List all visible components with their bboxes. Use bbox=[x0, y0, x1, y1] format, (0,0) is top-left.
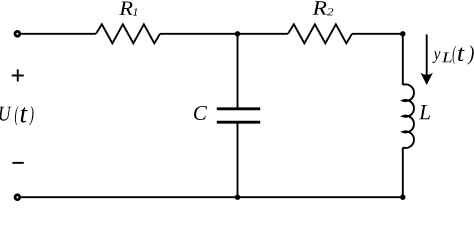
bottom right junction dot bbox=[400, 195, 405, 200]
node A junction dot bbox=[235, 31, 240, 36]
wire: R2 to node B bbox=[352, 33, 403, 35]
label U(t) '(' bbox=[15, 106, 19, 125]
wire: capacitor bottom plate to bottom node bbox=[237, 122, 239, 197]
label C (capacitor value) bbox=[194, 106, 207, 120]
label yL(t) letter 'y' bbox=[433, 51, 441, 63]
wire: inductor to bottom-right node bbox=[402, 148, 404, 198]
label R1 letter 'R' bbox=[119, 2, 132, 15]
label R1 subscript '1' bbox=[133, 8, 137, 16]
terminal bottom-left bbox=[15, 195, 20, 200]
label U(t) ')' bbox=[29, 106, 33, 125]
bottom middle junction dot bbox=[235, 195, 240, 200]
label yL(t) '(' bbox=[453, 46, 457, 65]
resistor R1 bbox=[96, 24, 160, 43]
bottom wire bbox=[17, 196, 402, 198]
label U(t) letter 'U' bbox=[0, 107, 12, 121]
wire top-left: terminal to R1 bbox=[17, 33, 96, 35]
label R2 letter 'R' bbox=[312, 1, 326, 14]
wire: R1 to node A bbox=[160, 33, 238, 35]
label yL(t) ')' bbox=[467, 45, 473, 64]
label L (inductor value) bbox=[419, 105, 430, 119]
inductor L coil bbox=[403, 84, 414, 148]
terminal top-left bbox=[15, 31, 20, 36]
wire: node A down to capacitor top plate bbox=[237, 34, 239, 109]
wire: node B down to inductor bbox=[402, 34, 404, 85]
label U(t) 't' bbox=[21, 107, 28, 122]
resistor R2 bbox=[288, 24, 352, 43]
label yL(t) 't' bbox=[458, 47, 465, 61]
label yL(t) subscript 'L' bbox=[442, 52, 452, 62]
wire: node A to R2 bbox=[238, 33, 289, 35]
plus sign bbox=[12, 69, 24, 81]
minus sign bbox=[12, 162, 23, 164]
node B junction dot bbox=[400, 31, 405, 36]
current arrow head bbox=[421, 73, 433, 85]
current arrow line yL(t) bbox=[426, 34, 428, 77]
capacitor C plates bbox=[217, 109, 260, 122]
label R2 subscript '2' bbox=[327, 8, 333, 15]
